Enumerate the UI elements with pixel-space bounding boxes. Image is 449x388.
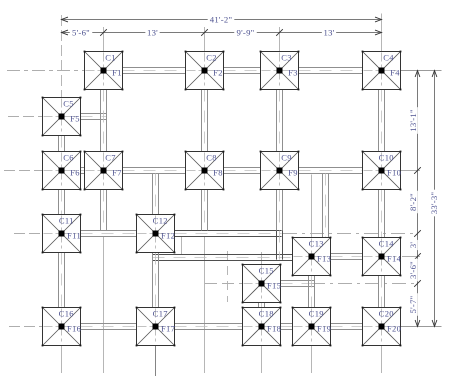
extension line right row1 bbox=[401, 70, 442, 72]
svg-text:F13: F13 bbox=[317, 253, 331, 263]
gridline column H below plan bbox=[381, 346, 383, 374]
svg-text:13'-1": 13'-1" bbox=[408, 109, 418, 132]
gridline row 1 left (dashed) bbox=[7, 70, 84, 72]
dimension line overall 33'-3" (right) bbox=[434, 71, 436, 327]
footing F5 / column C5 bbox=[42, 97, 82, 137]
svg-text:C7: C7 bbox=[105, 152, 116, 162]
svg-text:C5: C5 bbox=[63, 98, 74, 108]
svg-text:C11: C11 bbox=[59, 215, 74, 225]
svg-text:13': 13' bbox=[147, 28, 158, 38]
svg-text:C17: C17 bbox=[153, 308, 168, 318]
grade beam C9-C10 bbox=[299, 167, 363, 169]
grade beam C17-C18 bbox=[175, 323, 243, 325]
svg-text:5'-7": 5'-7" bbox=[408, 296, 418, 314]
svg-text:F7: F7 bbox=[112, 167, 122, 177]
gridline column F extension top bbox=[279, 27, 281, 51]
grade beam C2-C3 bbox=[224, 67, 261, 69]
svg-text:F10: F10 bbox=[387, 167, 401, 177]
svg-text:33'-3": 33'-3" bbox=[429, 192, 439, 215]
svg-text:41'-2": 41'-2" bbox=[210, 15, 233, 25]
footing F4 / column C4 bbox=[362, 51, 402, 91]
footing F20 / column C20 bbox=[362, 307, 402, 347]
svg-text:F12: F12 bbox=[161, 230, 175, 240]
svg-text:F4: F4 bbox=[390, 67, 400, 77]
gridline row 6 dashed left of C15 bbox=[205, 283, 242, 285]
grade beam C1-C2 bbox=[123, 67, 186, 69]
footing F17 / column C17 bbox=[136, 307, 176, 347]
svg-text:F20: F20 bbox=[387, 323, 401, 333]
svg-text:9'-9": 9'-9" bbox=[237, 28, 255, 38]
svg-text:F6: F6 bbox=[70, 167, 80, 177]
grade beam row 3 to C13 top bbox=[322, 174, 324, 238]
grade beam C14-C20 bbox=[378, 276, 380, 308]
svg-text:F8: F8 bbox=[213, 167, 223, 177]
svg-text:C3: C3 bbox=[281, 52, 292, 62]
footing F18 / column C18 bbox=[242, 307, 282, 347]
gridline column A upper (dashed) bbox=[61, 15, 63, 97]
footing F2 / column C2 bbox=[185, 51, 225, 91]
grade beam C2-C8 bbox=[201, 90, 203, 152]
gridline column C below plan (dark) bbox=[155, 346, 157, 377]
gridline row 7 left (dashed) bbox=[9, 326, 42, 328]
svg-text:3': 3' bbox=[408, 242, 418, 249]
gridline column D extension top bbox=[204, 27, 206, 51]
grade beam C9 down lower part (dark) bbox=[276, 231, 278, 260]
footing F11 / column C11 bbox=[42, 214, 82, 254]
svg-text:13': 13' bbox=[323, 28, 334, 38]
gridline row 3 left (dashed) bbox=[4, 170, 42, 172]
svg-text:C9: C9 bbox=[281, 152, 292, 162]
footing F1 / column C1 bbox=[84, 51, 124, 91]
svg-text:F1: F1 bbox=[112, 67, 122, 77]
footing F9 / column C9 bbox=[260, 151, 300, 191]
svg-text:F17: F17 bbox=[161, 323, 175, 333]
gridline row 3 right stub bbox=[401, 170, 420, 172]
svg-text:8'-2": 8'-2" bbox=[408, 193, 418, 211]
svg-text:F19: F19 bbox=[317, 323, 331, 333]
grade beam C11-C12 bbox=[81, 230, 137, 232]
gridline row 6 dashed right of beam bbox=[311, 283, 414, 285]
grade beam C9 down upper part bbox=[276, 190, 278, 231]
grade beam C4-C10 bbox=[378, 90, 380, 152]
gridline column G above C13 bbox=[311, 175, 313, 238]
grade beam C12-C17 bbox=[152, 253, 154, 308]
gridline column H extension top bbox=[381, 14, 383, 52]
grade beam row 3 to C12 bbox=[152, 174, 154, 215]
svg-text:C19: C19 bbox=[309, 308, 324, 318]
gridline column E above C15 bbox=[261, 252, 263, 264]
svg-text:C18: C18 bbox=[259, 308, 274, 318]
gridline column E below plan bbox=[261, 346, 263, 374]
gridline column B extension top bbox=[103, 27, 105, 51]
svg-text:F18: F18 bbox=[267, 323, 281, 333]
svg-text:5'-6": 5'-6" bbox=[72, 28, 90, 38]
extension line right row7 bbox=[401, 326, 442, 328]
gridline row 2 left (dashed) bbox=[8, 116, 42, 118]
svg-text:C6: C6 bbox=[63, 152, 74, 162]
footing F10 / column C10 bbox=[362, 151, 402, 191]
grade beam C line to C13 (dark) bbox=[153, 254, 293, 256]
svg-text:C14: C14 bbox=[379, 238, 395, 248]
svg-text:C12: C12 bbox=[153, 215, 168, 225]
gridline column A below plan bbox=[61, 346, 63, 374]
footing F15 / column C15 bbox=[242, 264, 282, 304]
grade beam C10-C14 bbox=[378, 190, 380, 238]
grade beam C18-C19 bbox=[281, 323, 293, 325]
grade beam C7 to row 4 bbox=[100, 190, 102, 231]
dimension line right segments 13'-1" / 8'-2" / 3' / 3'-6" / 5'-7" bbox=[417, 71, 419, 327]
svg-text:F14: F14 bbox=[387, 253, 402, 263]
footing F6 / column C6 bbox=[42, 151, 82, 191]
svg-text:F15: F15 bbox=[267, 280, 281, 290]
footing F8 / column C8 bbox=[185, 151, 225, 191]
grade beam C15-C18 bbox=[258, 303, 260, 308]
grade beam C16-C17 bbox=[81, 323, 137, 325]
dimension line overall 41'-2" (top) bbox=[62, 19, 382, 21]
footing F19 / column C19 bbox=[292, 307, 332, 347]
grade beam C3-C4 bbox=[299, 67, 363, 69]
svg-text:3'-6": 3'-6" bbox=[408, 261, 418, 279]
grade beam C6-C11 bbox=[58, 190, 60, 215]
grade beam C7-C8 bbox=[123, 167, 186, 169]
grade beam C13-C19 bbox=[308, 276, 310, 308]
dimension line top segments 5'-6" / 13' / 9'-9" / 13' bbox=[62, 32, 382, 34]
svg-text:C20: C20 bbox=[379, 308, 394, 318]
gridline column G below plan bbox=[311, 346, 313, 374]
svg-text:C16: C16 bbox=[59, 308, 74, 318]
grade beam C8 to row 4 bbox=[201, 190, 203, 231]
grade beam C5-C6 bbox=[58, 136, 60, 152]
svg-text:F5: F5 bbox=[70, 113, 80, 123]
gridline row 4 left (dashed) bbox=[14, 233, 42, 235]
svg-text:F3: F3 bbox=[288, 67, 298, 77]
gridline row 4 right (dashed) bbox=[283, 233, 418, 235]
grade beam C3-C9 bbox=[276, 90, 278, 152]
svg-text:F11: F11 bbox=[67, 230, 81, 240]
gridline column B lower bbox=[103, 237, 105, 373]
svg-text:C13: C13 bbox=[309, 238, 324, 248]
gridline dashed x=227.5 bbox=[227, 251, 229, 302]
footing F7 / column C7 bbox=[84, 151, 124, 191]
svg-text:F9: F9 bbox=[288, 167, 298, 177]
grade beam C8-C9 bbox=[224, 167, 261, 169]
grade beam C6-C7 bbox=[81, 167, 85, 169]
footing F12 / column C12 bbox=[136, 214, 176, 254]
footing F16 / column C16 bbox=[42, 307, 82, 347]
grade beam C15 to G line bbox=[281, 280, 315, 282]
grade beam C1-C7 bbox=[100, 90, 102, 152]
svg-text:C4: C4 bbox=[383, 52, 394, 62]
grade beam C12 to F line (dark) bbox=[175, 230, 282, 232]
grade beam C11-C16 bbox=[58, 253, 60, 308]
gridline stub x=181.5 bbox=[181, 237, 183, 254]
footing F3 / column C3 bbox=[260, 51, 300, 91]
svg-text:C2: C2 bbox=[206, 52, 217, 62]
grade beam C5 to B line bbox=[81, 113, 107, 115]
svg-text:C15: C15 bbox=[259, 265, 274, 275]
gridline column D lower bbox=[204, 237, 206, 373]
footing F14 / column C14 bbox=[362, 237, 402, 277]
svg-text:F16: F16 bbox=[67, 323, 81, 333]
grade beam C19-C20 bbox=[331, 323, 363, 325]
svg-text:C1: C1 bbox=[105, 52, 116, 62]
grade beam C13-C14 bbox=[331, 253, 363, 255]
gridline row 5 right stub bbox=[402, 256, 420, 258]
svg-text:C10: C10 bbox=[379, 152, 394, 162]
svg-text:F2: F2 bbox=[213, 67, 223, 77]
svg-text:C8: C8 bbox=[206, 152, 217, 162]
footing F13 / column C13 bbox=[292, 237, 332, 277]
